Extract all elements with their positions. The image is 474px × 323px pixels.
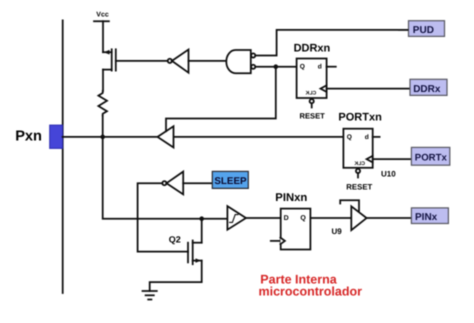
svg-text:d: d [365,134,369,141]
wire output enable from DDRxn [166,67,276,132]
svg-text:Q: Q [300,215,306,222]
svg-text:DDRx: DDRx [413,84,441,95]
svg-text:Q: Q [300,64,305,71]
wire DDRx bus [327,88,410,90]
svg-text:PORTxn: PORTxn [338,112,382,124]
svg-text:d: d [318,64,322,71]
wire sleep inverter output to Q2 gate [138,183,188,251]
ground [143,291,157,300]
svg-text:microcontrolador: microcontrolador [259,285,363,299]
svg-text:Pxn: Pxn [15,128,42,144]
buffer output driver (tri-state) [158,126,174,147]
node junction DDRxn Q [274,64,279,69]
box PORTx [411,147,449,165]
wire schmitt to PINxn [246,217,281,219]
wire DDRxn Q net [255,66,296,68]
wire inverter to PMOS gate [116,60,168,62]
transistor Q2 [150,219,202,291]
svg-text:Q: Q [347,134,352,141]
flip-flop DDRxn box [297,59,327,99]
wire PUD net [255,30,408,56]
wire sleep inverter input [183,182,212,184]
wire PORTxn D stub [373,136,380,138]
DDRxn reset pin [310,99,314,107]
node Pxn pin pad [50,125,63,148]
transistor pull-up PMOS [103,49,116,70]
buffer U9 [340,200,366,230]
VCC [94,11,109,21]
schmitt trigger buffer [227,206,246,230]
box DDRx [410,79,447,95]
svg-text:RESET: RESET [346,183,372,192]
wire resistor to pin line [102,116,104,137]
op-amp inverter sleep [162,172,183,195]
wire DDRxn D stub [327,66,336,68]
box PINx [411,208,448,224]
PORTxn reset pin [356,169,360,178]
flip-flop PORTxn box [343,129,372,168]
node junction schmitt/Q2 [199,216,204,221]
svg-text:U9: U9 [332,227,343,236]
svg-text:PORTx: PORTx [415,153,448,164]
svg-text:CLK: CLK [305,91,316,97]
svg-text:Vcc: Vcc [96,11,109,18]
op-amp inverter U1 (pull-up gate driver) [168,50,189,73]
wire pin to schmitt input [103,137,228,219]
wire VCC to pull-up transistor [102,21,104,52]
pin boundary line [62,20,64,293]
svg-text:Q2: Q2 [169,235,181,245]
svg-text:DDRxn: DDRxn [294,43,331,55]
wire main pin line [63,136,158,138]
wire PORTx bus [373,158,412,160]
svg-text:PUD: PUD [413,25,434,36]
box SLEEP [212,171,248,188]
svg-text:RESET: RESET [300,112,326,121]
box PUD [398,21,445,37]
svg-text:SLEEP: SLEEP [214,176,247,187]
svg-text:CLK: CLK [354,161,365,167]
svg-text:U10: U10 [381,169,396,178]
resistor pull-up [98,91,107,116]
wire NAND to inverter [189,60,227,62]
NAND gate pull-up control [226,50,255,73]
svg-text:D: D [284,215,289,222]
wire transistor to resistor [102,70,104,91]
svg-text:PINx: PINx [415,212,438,223]
svg-text:PINxn: PINxn [275,192,307,204]
wire PINxn to U9 [310,217,351,219]
wire U9 to PINx [367,217,412,219]
node junction pin/resistor [100,135,105,140]
latch PINxn box [271,209,311,250]
